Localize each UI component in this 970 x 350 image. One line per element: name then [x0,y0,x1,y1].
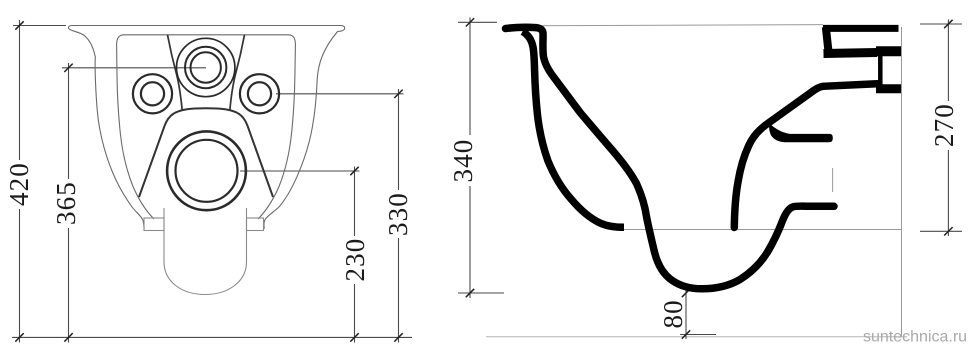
wire dim line 80 [685,289,687,340]
wire dim line 330 [398,89,400,191]
wire 365 leader to flush center [62,67,206,69]
wire floor line [486,336,907,338]
svg-text:365: 365 [51,181,81,225]
socket vertical [878,53,883,87]
wire outlet short vertical [832,168,834,192]
label 340 [448,136,480,185]
profile: rim hook + inner bowl + trap (thick) [506,27,835,289]
right lug rectangle [247,218,264,231]
flush hole circles [177,38,235,96]
wire dim line 365 [68,63,70,180]
svg-text:330: 330 [383,192,413,236]
wire top extension line [13,25,66,27]
wire thin top line [524,25,823,26]
svg-text:suntechnica.ru: suntechnica.ru [863,329,967,346]
wire 230 leader from drain [240,170,360,172]
label 230 [340,236,370,284]
svg-text:270: 270 [929,103,959,147]
svg-text:340: 340 [448,139,478,183]
label 330 [383,190,413,238]
spud upper cap bar [876,46,901,56]
wire left baseline [12,336,412,338]
wire dim line 270 [947,20,949,103]
tongue channel [164,208,247,295]
flush collar left line [168,35,183,111]
ticks right drawing [466,18,953,339]
spud lower cap bar [876,84,901,93]
flush collar right line [230,35,245,111]
left vertical of inlet [826,27,829,56]
wire dim line 230 [354,167,356,238]
wire dim line 420 [19,20,21,161]
outlet hook bar [769,123,833,142]
wire mid thin line [624,229,902,231]
outline of pan (outer) [68,26,344,229]
right fixing hole [240,74,279,113]
svg-text:420: 420 [4,162,34,206]
drain hole circles [167,131,246,210]
tick marks left drawing [15,21,402,341]
left lug rectangle [144,218,164,231]
label 270 [929,101,959,150]
svg-text:230: 230 [340,238,370,282]
wire wall line [901,27,903,337]
bell around drain [139,108,273,197]
top bar of inlet [823,25,899,32]
profile: outer front line (thick) [523,32,625,228]
spud upper slope bar [824,53,878,54]
outline of pan (inner) [117,35,296,219]
left fixing hole [133,74,172,113]
label 365 [51,179,81,228]
profile: rear wall + upper spigot slope (thick) [734,84,877,228]
label 420 [4,160,34,209]
wire dim line 340 [469,18,471,136]
svg-text:80: 80 [658,299,688,328]
wire 330 leader from right hole [276,93,404,95]
